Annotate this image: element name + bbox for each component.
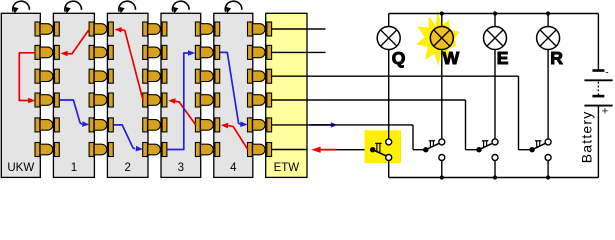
lamp W glow starburst bbox=[416, 10, 459, 65]
contact R1-R2 row 6 bbox=[89, 143, 94, 157]
wire blue rotor3 left-row6 riser to right-row2 bbox=[167, 53, 188, 150]
ETW row 5 wire bbox=[272, 124, 307, 126]
wire blue ETW row5 out to lamps (arrow right) bbox=[310, 124, 333, 126]
wire red rotor3 right-row5 to left-row4 bbox=[174, 101, 196, 125]
junction node top rail W bbox=[440, 11, 444, 15]
ETW row 1 stub bbox=[307, 28, 326, 30]
ETW row 2 wire bbox=[272, 51, 307, 53]
key switch E upper contact bbox=[492, 139, 498, 145]
ETW row 1 wire bbox=[272, 28, 307, 30]
lamp R bbox=[547, 14, 549, 27]
ETW row 6 wire bbox=[272, 149, 307, 151]
wire lower contact W to bottom rail bbox=[441, 161, 443, 178]
contact R2-R3 row 6 bbox=[143, 143, 148, 157]
svg-text:Battery: Battery bbox=[579, 111, 595, 164]
svg-text:UKW: UKW bbox=[7, 162, 34, 174]
rotor box 2 bbox=[107, 13, 148, 177]
key switch W lever (released) bbox=[426, 143, 439, 149]
key switch E lever (released) bbox=[479, 143, 492, 149]
key switch Q pivot bbox=[370, 147, 375, 152]
key switch W pivot bbox=[423, 147, 428, 152]
ETW row 4 wire bbox=[272, 99, 307, 101]
rotor box 3 bbox=[161, 13, 201, 177]
rotation arrow above R4 bbox=[225, 1, 242, 12]
rotor box UKW bbox=[1, 13, 40, 177]
lamp Q bbox=[388, 14, 390, 27]
svg-text:R: R bbox=[550, 48, 563, 68]
contact UKW-R1 row 4 bbox=[35, 93, 40, 107]
wire blue rotor2 left-row5 to right-row6 bbox=[114, 125, 135, 149]
wire blue rotor1 left-row4 to right-row5 bbox=[60, 100, 82, 124]
junction node bottom rail W bbox=[440, 175, 444, 179]
ETW row 3 wire bbox=[272, 75, 307, 77]
contact R1-R2 row 2 bbox=[89, 45, 94, 59]
contact UKW-R1 row 5 bbox=[35, 118, 40, 132]
contact R1-R2 row 1 bbox=[89, 22, 94, 36]
contact R2-R3 row 4 bbox=[143, 93, 148, 107]
contact UKW-R1 row 2 bbox=[35, 45, 40, 59]
lamp W bbox=[441, 14, 443, 27]
svg-text:ETW: ETW bbox=[274, 162, 300, 174]
wire red UKW U-turn row2-row4 bbox=[19, 53, 35, 101]
contact R1-R2 row 5 bbox=[89, 118, 94, 132]
wire ETW row4 to key E pivot bbox=[307, 99, 466, 101]
bottom rail wire (battery plus) bbox=[389, 177, 599, 179]
rotation arrow above UKW bbox=[13, 1, 30, 12]
key switch Q lever (pressed) bbox=[373, 150, 386, 156]
rotor box 1 bbox=[53, 13, 94, 177]
wire ETW row5 to key W pivot bbox=[307, 124, 413, 126]
contact R3-R4 row 3 bbox=[195, 69, 200, 83]
key switch E lower contact bbox=[492, 155, 498, 161]
key switch W upper contact bbox=[439, 139, 445, 145]
svg-text:E: E bbox=[497, 48, 509, 68]
contact R4-ETW row 6 bbox=[248, 143, 253, 157]
junction node bottom rail E bbox=[493, 175, 497, 179]
rotor box 4 bbox=[214, 13, 253, 177]
contact R1-R2 row 3 bbox=[89, 69, 94, 83]
contact R1-R2 row 4 bbox=[89, 93, 94, 107]
key switch R pivot bbox=[529, 147, 534, 152]
wire ETW row3 to key R pivot bbox=[307, 75, 519, 77]
wire red rotor1 right-row1 to left-row2 bbox=[67, 29, 89, 54]
wire lower contact E to bottom rail bbox=[494, 161, 496, 178]
pressed key Q highlight bbox=[365, 130, 402, 163]
ETW row 2 stub bbox=[307, 51, 326, 53]
contact UKW-R1 row 6 bbox=[35, 143, 40, 157]
key switch E pivot bbox=[476, 147, 481, 152]
key switch W lower contact bbox=[439, 155, 445, 161]
junction node top rail E bbox=[493, 11, 497, 15]
junction node bottom rail R bbox=[546, 175, 550, 179]
wire red rotor4 right-row6 to left-row5 bbox=[228, 125, 248, 149]
svg-text:4: 4 bbox=[230, 162, 237, 174]
wire red rotor2 right-row4 to left-row1 bbox=[120, 30, 143, 100]
svg-text:+: + bbox=[602, 106, 608, 118]
key switch Q upper contact bbox=[386, 139, 392, 145]
wire red ETW row6 to key Q (arrow into ETW) bbox=[335, 149, 373, 151]
svg-text:W: W bbox=[443, 48, 460, 68]
key switch R lever (released) bbox=[532, 143, 545, 149]
key switch R lower contact bbox=[545, 155, 551, 161]
contact R2-R3 row 1 bbox=[143, 22, 148, 36]
rotation arrow above R2 bbox=[119, 1, 136, 12]
battery bbox=[597, 106, 599, 178]
contact R3-R4 row 6 bbox=[195, 143, 200, 157]
wire lower contact R to bottom rail bbox=[547, 161, 549, 178]
contact R2-R3 row 5 bbox=[143, 118, 148, 132]
svg-text:-: - bbox=[605, 68, 608, 79]
contact R3-R4 row 1 bbox=[195, 22, 200, 36]
contact R2-R3 row 3 bbox=[143, 69, 148, 83]
contact R4-ETW row 2 bbox=[248, 45, 253, 59]
contact R4-ETW row 4 bbox=[248, 93, 253, 107]
wire blue rotor4 left-row2 to right-row5 bbox=[220, 52, 241, 124]
contact R2-R3 row 2 bbox=[143, 45, 148, 59]
svg-text:Q: Q bbox=[392, 48, 406, 68]
junction node top rail R bbox=[546, 11, 550, 15]
top rail wire (lamps to battery minus) bbox=[389, 13, 599, 15]
contact UKW-R1 row 1 bbox=[35, 22, 40, 36]
contact R3-R4 row 5 bbox=[195, 118, 200, 132]
contact UKW-R1 row 3 bbox=[35, 69, 40, 83]
contact R4-ETW row 1 bbox=[248, 22, 253, 36]
contact R3-R4 row 4 bbox=[195, 93, 200, 107]
svg-text:2: 2 bbox=[124, 162, 130, 174]
key switch R upper contact bbox=[545, 139, 551, 145]
rotation arrow above R1 bbox=[65, 1, 82, 12]
contact R4-ETW row 5 bbox=[248, 118, 253, 132]
contact R3-R4 row 2 bbox=[195, 45, 200, 59]
rotation arrow above R3 bbox=[172, 1, 189, 12]
lamp E bbox=[494, 14, 496, 27]
contact R4-ETW row 3 bbox=[248, 69, 253, 83]
ETW box bbox=[266, 13, 307, 177]
wire lower contact Q to bottom rail bbox=[388, 161, 390, 178]
key switch Q lower contact bbox=[386, 155, 392, 161]
svg-text:1: 1 bbox=[71, 162, 77, 174]
svg-text:3: 3 bbox=[178, 162, 184, 174]
